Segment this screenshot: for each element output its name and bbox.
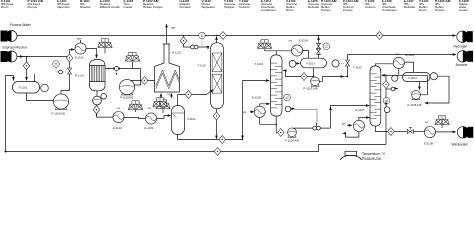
- svg-text:P-1101A/B: P-1101A/B: [52, 111, 65, 115]
- wire T-1102 bottoms: [275, 116, 277, 132]
- svg-text:E-1107: E-1107: [356, 108, 365, 112]
- wire reactor effluent down: [96, 91, 98, 96]
- svg-text:T-1103: T-1103: [353, 65, 362, 69]
- svg-text:T-1102: T-1102: [255, 62, 264, 66]
- feed flag Process Water: [1, 31, 18, 42]
- stream diamond header right: [376, 32, 383, 40]
- instrument LC on drum: [332, 60, 339, 67]
- wire stack gas: [166, 24, 168, 44]
- aux circle below reactor: [93, 96, 102, 105]
- suction to P-1104: [276, 132, 277, 134]
- pump P-1102 A/B: [119, 79, 134, 95]
- svg-text:P-1105 A/B: P-1105 A/B: [408, 103, 422, 107]
- svg-text:Pumps: Pumps: [343, 8, 353, 12]
- wire pump discharge: [319, 77, 344, 82]
- svg-text:Wastewater: Wastewater: [452, 142, 470, 146]
- wire E-1107 return: [359, 118, 370, 121]
- svg-text:E-1106: E-1106: [406, 53, 415, 57]
- svg-text:Effluent Cooler: Effluent Cooler: [100, 5, 120, 9]
- svg-text:Pumps: Pumps: [28, 5, 38, 9]
- svg-text:E-1104: E-1104: [299, 39, 308, 43]
- instrument below E-1106: [398, 69, 400, 75]
- valves on vent: [317, 43, 321, 49]
- product flag Hydrogen: [457, 31, 473, 42]
- valve on riser: [68, 68, 72, 74]
- svg-text:V-1103: V-1103: [306, 62, 315, 66]
- stream diamond overhead: [220, 32, 227, 40]
- column T-1101 stripper: [211, 43, 224, 109]
- wire reboiler draw: [260, 118, 277, 125]
- stream diamond 8: [307, 76, 313, 78]
- svg-text:H-1101: H-1101: [172, 51, 181, 55]
- svg-text:Column: Column: [365, 5, 376, 9]
- wire salt to furnace: [131, 80, 155, 82]
- product valve acetone: [346, 60, 350, 66]
- wire drum nozzle 2: [34, 74, 36, 82]
- wire recycle staircase to feed drum: [6, 145, 387, 152]
- wire reflux to column: [283, 71, 300, 77]
- svg-text:Condenser: Condenser: [382, 8, 397, 12]
- valve water wash: [191, 45, 195, 49]
- wire pump discharge riser: [61, 50, 74, 94]
- exchanger E-1104: [291, 45, 302, 56]
- svg-text:Stripper: Stripper: [224, 5, 235, 9]
- cw pair symbol with box: [125, 52, 139, 61]
- svg-text:E-1102: E-1102: [113, 126, 122, 130]
- stream diamond salt: [141, 77, 148, 85]
- svg-text:E-1103: E-1103: [145, 126, 154, 130]
- svg-text:Heater Pumps: Heater Pumps: [143, 5, 163, 9]
- svg-text:Pressure, bar: Pressure, bar: [362, 157, 382, 161]
- instrument at drum left: [289, 60, 296, 67]
- svg-text:Vaporizer: Vaporizer: [57, 5, 70, 9]
- exchanger E-1106: [393, 57, 404, 68]
- arrowhead riser junction: [242, 135, 244, 139]
- feed flag Isopropyl Alcohol: [1, 51, 18, 62]
- svg-text:gas: gas: [171, 25, 176, 29]
- vessel V-1102 separator: [172, 106, 185, 135]
- svg-text:Reactor: Reactor: [80, 5, 91, 9]
- stream diamond on bottoms: [213, 112, 220, 120]
- wire to reflux drum: [303, 51, 309, 59]
- wire acetone product: [348, 55, 456, 60]
- wire IPA feed y56: [17, 56, 69, 58]
- stream diamond 3: [66, 54, 73, 62]
- svg-text:Separator: Separator: [202, 5, 215, 9]
- cw pair symbol near reactor top: [98, 39, 112, 48]
- wire drum vent to header: [318, 37, 320, 59]
- wire T-1103 overhead: [375, 64, 393, 66]
- svg-text:Hydrogen: Hydrogen: [454, 44, 468, 48]
- svg-text:E-1108: E-1108: [424, 142, 433, 146]
- legend symbol: [345, 151, 357, 155]
- burners ng: [160, 94, 162, 99]
- instrument LC T-1102: [284, 94, 291, 101]
- wire molten salt loop top: [105, 69, 141, 86]
- svg-text:V-1102: V-1102: [187, 117, 196, 121]
- instrument LC V-1104: [430, 73, 437, 80]
- exchanger E-1107 reboiler: [353, 120, 364, 131]
- furnace H-1101: [155, 44, 180, 92]
- svg-text:Drum: Drum: [286, 8, 294, 12]
- svg-text:Cooler: Cooler: [459, 8, 468, 12]
- wire E-1102 to E-1103: [124, 117, 145, 118]
- svg-text:Reboiler: Reboiler: [308, 5, 319, 9]
- wire P-1104 discharge: [294, 128, 313, 129]
- svg-text:Condenser: Condenser: [261, 8, 276, 12]
- svg-text:V-1101: V-1101: [19, 86, 28, 90]
- svg-text:Column: Column: [239, 5, 250, 9]
- cw pair symbol E-1103: [156, 100, 170, 109]
- cw pair symbol E-1102: [128, 101, 142, 110]
- valve recycle vent: [386, 88, 391, 90]
- wire E-1101 to reactor: [86, 49, 96, 58]
- svg-text:lps: lps: [342, 122, 346, 126]
- svg-text:Temperature, °C: Temperature, °C: [362, 152, 386, 156]
- wire to V-1104: [404, 62, 413, 72]
- cw pair symbol E-1104: [257, 40, 271, 49]
- wire reboiler return: [260, 104, 270, 106]
- valve salt line: [114, 67, 120, 70]
- pump P-1101 A/B: [53, 94, 68, 110]
- wire drum outlet to P-1105: [419, 82, 421, 90]
- svg-text:V-1104: V-1104: [408, 76, 417, 80]
- svg-text:R-1101: R-1101: [75, 73, 84, 77]
- wire E-1107 condensate: [346, 132, 359, 138]
- stream diamond recycle: [214, 148, 221, 156]
- wire reflux and recycle: [382, 75, 428, 95]
- pump P-1103 A/B: [311, 77, 320, 86]
- valve P-1104 discharge: [313, 126, 317, 130]
- wire stripper overhead: [216, 37, 218, 43]
- svg-text:P-1104 A/B: P-1104 A/B: [285, 139, 299, 143]
- wire riser to T-1102 feed: [243, 81, 270, 140]
- wire E-1103 to separator: [157, 116, 171, 119]
- reactor R-1101: [90, 60, 106, 91]
- column T-1103 IPA column: [370, 66, 381, 126]
- exchanger E-1105 reboiler: [254, 106, 265, 117]
- wire separator vapor to stripper: [178, 90, 214, 106]
- svg-text:Drum: Drum: [419, 8, 427, 12]
- svg-text:T-1101: T-1101: [198, 64, 207, 68]
- wire to wastewater flag: [436, 131, 456, 133]
- wire drum outlet to pump: [27, 93, 54, 101]
- svg-text:Isopropyl Alcohol: Isopropyl Alcohol: [3, 45, 27, 49]
- instrument T-1102 bottoms: [285, 106, 291, 112]
- wire recycle drop: [385, 75, 387, 144]
- vessel V-1101: [13, 82, 40, 94]
- cw pair symbol E-1108: [435, 116, 449, 125]
- svg-text:P-1103 A/B: P-1103 A/B: [304, 87, 318, 91]
- cw pair symbol near furnace: [153, 98, 167, 107]
- wire drum outlet: [313, 68, 315, 77]
- svg-text:E-1105: E-1105: [252, 95, 261, 99]
- column T-1102 acetone column: [271, 55, 283, 116]
- pump P-1104 A/B: [288, 128, 297, 137]
- svg-text:ng: ng: [167, 92, 171, 96]
- product flag Acetone: [457, 51, 473, 62]
- water wash drop to stripper: [183, 35, 185, 37]
- stripper bottoms join: [216, 109, 218, 139]
- wire separator liquid: [178, 135, 243, 140]
- svg-text:Pumps: Pumps: [435, 8, 445, 12]
- wire to E-1102: [97, 105, 113, 117]
- wire recycle entry: [6, 76, 14, 152]
- exchanger E-1101 vaporizer: [75, 43, 86, 54]
- svg-text:Process Water: Process Water: [10, 23, 32, 27]
- stream diamond 6: [93, 106, 100, 114]
- instrument PIC: [323, 43, 330, 50]
- stream diamond 7: [185, 91, 192, 99]
- svg-text:Drum: Drum: [1, 5, 9, 9]
- exchanger E-1108: [424, 127, 435, 138]
- wire T-1102 overhead to E-1104: [265, 49, 292, 55]
- exchanger E-1103: [145, 113, 156, 124]
- svg-text:E-1101: E-1101: [75, 55, 84, 59]
- instrument on header: [199, 32, 206, 39]
- pump P-1105 A/B: [412, 90, 421, 99]
- svg-text:hps: hps: [77, 36, 82, 40]
- svg-text:Acetone: Acetone: [456, 63, 468, 67]
- wire into drum: [26, 70, 28, 81]
- valves wastewater: [407, 130, 413, 134]
- svg-text:Reboiler: Reboiler: [404, 5, 415, 9]
- node mix junction: [26, 56, 28, 58]
- wire T-1103 bottoms wastewater: [375, 126, 387, 131]
- vessel V-1104 reflux drum: [403, 72, 431, 81]
- svg-text:P-1102A/B: P-1102A/B: [120, 96, 133, 100]
- instrument FC: [53, 61, 60, 68]
- wire LC control loop: [425, 76, 449, 103]
- stream diamond 2: [26, 57, 28, 63]
- exchanger E-1102: [113, 112, 124, 123]
- svg-text:Furnace: Furnace: [180, 5, 191, 9]
- product flag Wastewater: [457, 127, 473, 138]
- vessel V-1103 reflux drum: [301, 58, 327, 68]
- wire process water / hydrogen header y35: [17, 35, 456, 37]
- svg-text:Cooler: Cooler: [124, 5, 133, 9]
- svg-text:Pumps: Pumps: [321, 8, 331, 12]
- instrument on V-1101: [41, 84, 49, 92]
- svg-text:lps: lps: [243, 110, 247, 114]
